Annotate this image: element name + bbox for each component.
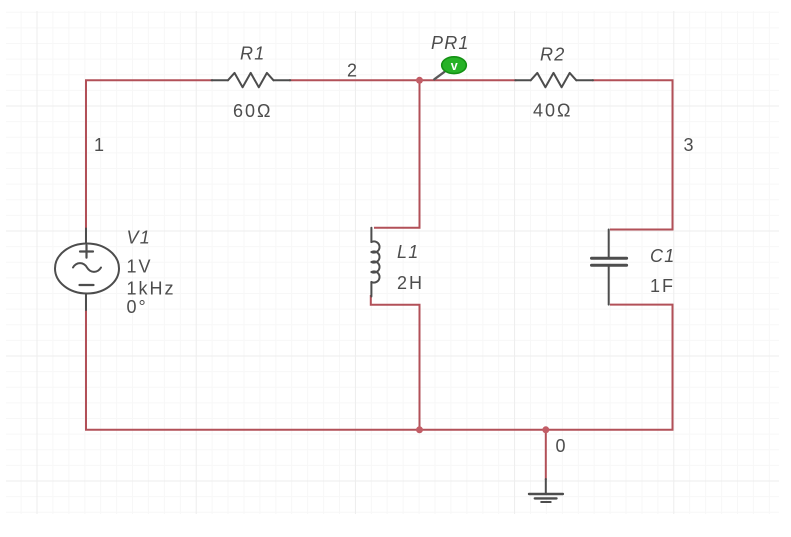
wire net1: V1 bottom down to bottom-left corner and along bottom	[86, 310, 420, 430]
svg-text:R1: R1	[240, 44, 265, 64]
svg-text:C1: C1	[650, 246, 675, 266]
wire net1: V1 top up and across to R1	[86, 80, 212, 229]
svg-text:1V: 1V	[127, 256, 153, 276]
capacitor C1	[592, 230, 627, 305]
svg-text:2H: 2H	[397, 273, 424, 293]
junction dot ground	[542, 426, 549, 433]
resistor R1	[212, 73, 291, 87]
wire ground stub	[545, 430, 547, 479]
svg-text:0°: 0°	[127, 297, 148, 317]
wire L1 branch: bottom jog right, down to bottom wire	[371, 296, 420, 430]
svg-text:60Ω: 60Ω	[233, 101, 272, 121]
probe PR1	[434, 57, 466, 80]
ground	[529, 479, 563, 502]
source V1	[55, 229, 119, 311]
wire node2: R1 to junction to R2	[290, 79, 515, 81]
svg-text:R2: R2	[540, 45, 565, 65]
svg-text:1kHz: 1kHz	[127, 279, 176, 299]
svg-text:2: 2	[347, 60, 359, 80]
junction dot L1 bottom	[416, 426, 423, 433]
svg-text:40Ω: 40Ω	[533, 101, 572, 121]
svg-text:PR1: PR1	[431, 33, 470, 53]
resistor R2	[515, 73, 593, 87]
svg-text:1: 1	[94, 135, 106, 155]
wire L1 branch: junction down, jog left	[375, 80, 420, 228]
junction dot node 2	[416, 77, 423, 84]
svg-text:3: 3	[684, 135, 696, 155]
svg-text:0: 0	[556, 436, 568, 456]
svg-text:V1: V1	[127, 228, 151, 248]
inductor L1	[371, 228, 379, 297]
svg-text:1F: 1F	[650, 276, 675, 296]
wire bottom middle segment	[420, 429, 546, 431]
svg-text:L1: L1	[397, 242, 419, 262]
wire: C1 bottom jog, right vertical, bottom right segment	[546, 305, 673, 430]
svg-text:v: v	[451, 59, 458, 73]
wire node3: R2 to top-right corner down to C1 top jog	[593, 80, 673, 229]
